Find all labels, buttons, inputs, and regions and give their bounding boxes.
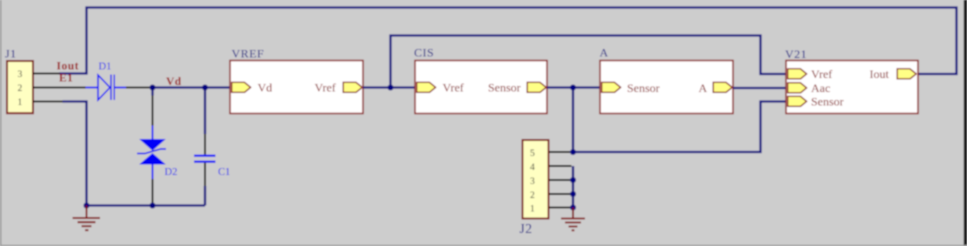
sheet entry Iout (output) xyxy=(897,69,916,79)
svg-text:Vd: Vd xyxy=(258,81,273,95)
svg-text:Vref: Vref xyxy=(443,81,464,95)
node junction C1 top xyxy=(202,85,208,91)
sheet symbol VREF xyxy=(230,61,363,114)
pin 2 (E1) xyxy=(33,87,86,89)
svg-text:2: 2 xyxy=(530,191,535,201)
wire Sensor bus down to J2 pin5 xyxy=(572,88,574,153)
svg-text:5: 5 xyxy=(530,149,535,159)
sheet entry Aac (input) xyxy=(788,83,807,93)
node junction D2 top xyxy=(150,85,156,91)
wire D2 bottom to rail xyxy=(151,203,153,206)
svg-text:V21: V21 xyxy=(785,47,807,61)
pin 1 xyxy=(549,207,572,209)
pin 4 xyxy=(549,165,572,167)
sheet entry Vref (input) xyxy=(417,82,436,92)
sheet entry Sensor (input) xyxy=(602,82,621,92)
svg-text:A: A xyxy=(600,46,609,60)
node junction Sensor xyxy=(570,85,576,91)
ground G2 xyxy=(561,208,585,231)
pin D2 top (black) xyxy=(152,96,154,126)
sheet symbol V21 xyxy=(786,61,918,114)
svg-text:Sensor: Sensor xyxy=(627,81,660,95)
sheet entry A (output) xyxy=(713,82,732,92)
svg-text:CIS: CIS xyxy=(414,46,434,60)
sheet symbol A xyxy=(600,61,733,114)
wire Vref bus to V21 xyxy=(391,36,787,88)
sheet entry Vref (input) xyxy=(788,69,807,79)
svg-text:Iout: Iout xyxy=(870,67,890,81)
node junction pin1 xyxy=(570,205,576,211)
svg-text:3: 3 xyxy=(530,177,535,187)
svg-text:C1: C1 xyxy=(218,167,230,178)
svg-text:E1: E1 xyxy=(59,73,73,85)
wire Iout top bus: J1 pin1 up and across to V21 Iout xyxy=(59,8,957,75)
diode D2 (TVS) xyxy=(137,126,166,180)
sheet entry Sensor (input) xyxy=(788,96,807,106)
pin 5 xyxy=(549,151,570,153)
wire bottom ground rail xyxy=(87,204,206,206)
node junction D2 bottom xyxy=(150,203,156,209)
svg-text:4: 4 xyxy=(530,163,535,173)
svg-text:2: 2 xyxy=(18,84,23,94)
wire C1 bottom to rail xyxy=(204,186,206,206)
svg-text:Vref: Vref xyxy=(811,67,832,81)
pin 1 (gnd) xyxy=(33,101,63,103)
wire/pin black segment after D1 xyxy=(126,87,150,89)
pin 3 (Iout) xyxy=(33,73,60,75)
svg-text:1: 1 xyxy=(18,98,23,108)
wire J1 pin3 to ground rail xyxy=(63,102,87,206)
pin 3 xyxy=(549,179,572,181)
node junction Vref xyxy=(388,85,394,91)
node junction pin3 xyxy=(570,177,576,183)
svg-text:D1: D1 xyxy=(99,62,112,73)
svg-text:D2: D2 xyxy=(165,167,178,178)
node junction pin2 xyxy=(570,191,576,197)
connector J1 xyxy=(7,61,86,113)
svg-text:A: A xyxy=(699,81,708,95)
wire D2 vertical top xyxy=(151,88,153,96)
ground G1 xyxy=(73,206,101,231)
svg-text:Vd: Vd xyxy=(166,76,182,88)
node junction J2 pin5 xyxy=(570,149,576,155)
pin 2 xyxy=(549,193,572,195)
wire A output to V21 Aac xyxy=(733,87,786,89)
wire Sensor bus to V21 Sensor xyxy=(573,102,786,153)
node ground junction xyxy=(84,203,90,209)
svg-text:Sensor: Sensor xyxy=(488,81,521,95)
svg-text:Iout: Iout xyxy=(57,61,79,73)
svg-text:1: 1 xyxy=(530,205,535,215)
wire Vd: junction to VREF input xyxy=(150,86,230,88)
capacitor C1 xyxy=(194,134,216,186)
sheet symbol CIS xyxy=(415,61,547,114)
svg-text:J2: J2 xyxy=(520,221,533,236)
wire VREF output to CIS input xyxy=(363,86,415,88)
diode D1 xyxy=(86,75,127,101)
svg-text:Sensor: Sensor xyxy=(811,95,844,109)
svg-text:Vref: Vref xyxy=(315,81,336,95)
sheet entry Vd (input) xyxy=(232,82,251,92)
connector J2 xyxy=(523,140,572,219)
sheet entry Vref (output) xyxy=(343,82,362,92)
sheet entry Sensor (output) xyxy=(527,82,546,92)
wire J2 pins 4-1 vertical xyxy=(572,166,574,208)
svg-text:J1: J1 xyxy=(5,47,17,61)
svg-text:3: 3 xyxy=(18,70,23,80)
svg-text:VREF: VREF xyxy=(232,47,265,61)
wire C1 vertical top xyxy=(204,88,206,135)
wire CIS output to A input xyxy=(547,86,600,88)
svg-text:Aac: Aac xyxy=(811,81,830,95)
pin D2 bottom (black) xyxy=(152,179,154,203)
